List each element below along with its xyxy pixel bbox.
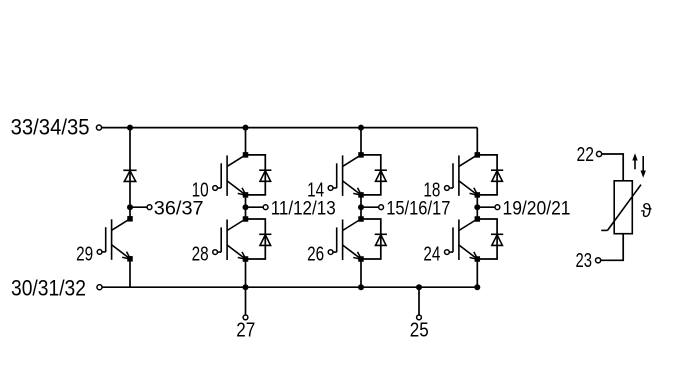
transistor Q3b (leg 3 low-side IGBT) pin 24 xyxy=(445,216,481,262)
wire leg3 bottom column xyxy=(476,259,478,287)
terminal 15/16/17 label xyxy=(386,199,450,220)
wire node to terminal 36/37 xyxy=(130,206,147,208)
terminal 33/34/35 label xyxy=(11,115,90,140)
terminal 25 xyxy=(417,315,422,320)
wire leg2 midpoint branch xyxy=(361,206,379,208)
svg-text:28: 28 xyxy=(192,243,209,265)
node 36/37 junction xyxy=(127,204,133,210)
transistor Q1b (leg 1 low-side IGBT) pin 28 xyxy=(213,216,249,262)
transistor Q7 (brake chopper IGBT) pin 29 xyxy=(97,216,133,261)
terminal 25 label xyxy=(410,320,429,342)
node DC- / terminal 25 junction xyxy=(416,284,422,290)
terminal 19/20/21 xyxy=(495,205,500,210)
transistor Q2t (leg 2 high-side IGBT) pin 14 xyxy=(328,152,364,198)
svg-text:26: 26 xyxy=(307,243,324,265)
svg-text:29: 29 xyxy=(76,243,93,265)
wire leg1 mid column xyxy=(245,195,247,219)
wire leg3 top column xyxy=(476,128,478,155)
terminal 36/37 label xyxy=(154,199,204,220)
svg-text:11/12/13: 11/12/13 xyxy=(271,199,336,220)
wire to terminal 25 xyxy=(418,287,420,315)
wire leg1 midpoint branch xyxy=(246,206,264,208)
wire leg2 top column xyxy=(360,128,362,155)
wire leg3 mid column xyxy=(476,195,478,219)
diode D7 (brake chopper freewheel) xyxy=(123,170,136,181)
node DC- / leg1 junction xyxy=(243,284,249,290)
svg-text:23: 23 xyxy=(576,250,593,272)
wire leg1 bottom column xyxy=(245,259,247,287)
thermistor R-NTC body xyxy=(614,181,632,234)
svg-text:24: 24 xyxy=(423,243,440,265)
svg-text:10: 10 xyxy=(192,179,209,201)
thermistor down arrow xyxy=(641,156,646,178)
wire terminal 22 to thermistor xyxy=(602,154,623,181)
label 10 (leg 1 high-side gate) xyxy=(192,179,209,201)
node DC+ / leg1 junction xyxy=(243,125,249,131)
terminal 23 xyxy=(596,258,601,263)
svg-text:14: 14 xyxy=(307,179,324,201)
transistor Q2b (leg 2 low-side IGBT) pin 26 xyxy=(328,216,364,262)
terminal 33/34/35 (DC+) xyxy=(96,125,101,130)
svg-text:19/20/21: 19/20/21 xyxy=(503,199,571,220)
node leg2 emitter-top xyxy=(358,204,364,210)
node DC+ / chopper diode junction xyxy=(127,125,133,131)
wire DC+ rail xyxy=(102,127,478,129)
node DC- / leg3 junction xyxy=(474,284,480,290)
svg-text:18: 18 xyxy=(423,179,440,201)
label 24 (leg 3 low-side gate) xyxy=(423,243,440,265)
wire leg1 top column xyxy=(245,128,247,155)
terminal 22 label xyxy=(577,144,595,166)
diode D2b (leg 2 low-side freewheel) xyxy=(361,219,387,259)
svg-text:36/37: 36/37 xyxy=(154,199,204,220)
terminal 11/12/13 label xyxy=(271,199,336,220)
terminal 15/16/17 xyxy=(379,205,384,210)
label 28 (leg 1 low-side gate) xyxy=(192,243,209,265)
node DC- / leg2 junction xyxy=(358,284,364,290)
terminal 36/37 xyxy=(147,205,152,210)
svg-text:25: 25 xyxy=(410,320,429,342)
terminal 11/12/13 xyxy=(263,205,268,210)
label 29 (chopper gate) xyxy=(76,243,93,265)
terminal 23 label xyxy=(576,250,593,272)
terminal 27 label xyxy=(236,320,255,342)
transistor Q1t (leg 1 high-side IGBT) pin 10 xyxy=(213,152,249,198)
svg-text:33/34/35: 33/34/35 xyxy=(11,115,90,140)
diode D3t (leg 3 high-side freewheel) xyxy=(477,155,503,195)
terminal 30/31/32 (DC-) xyxy=(97,285,102,290)
wire to terminal 27 xyxy=(245,287,247,315)
svg-text:27: 27 xyxy=(236,320,255,342)
diode D1b (leg 1 low-side freewheel) xyxy=(246,219,272,259)
terminal 30/31/32 label xyxy=(11,275,86,300)
wire DC- rail xyxy=(102,286,480,288)
node leg1 emitter-top xyxy=(243,204,249,210)
label 18 (leg 3 high-side gate) xyxy=(423,179,440,201)
wire leg3 midpoint branch xyxy=(477,206,495,208)
node DC+ / leg2 junction xyxy=(358,125,364,131)
node leg3 emitter-top xyxy=(474,204,480,210)
terminal 19/20/21 label xyxy=(503,199,571,220)
label 26 (leg 2 low-side gate) xyxy=(307,243,324,265)
transistor Q3t (leg 3 high-side IGBT) pin 18 xyxy=(445,152,481,198)
diode D1t (leg 1 high-side freewheel) xyxy=(246,155,272,195)
label 14 (leg 2 high-side gate) xyxy=(307,179,324,201)
terminal 27 xyxy=(243,315,248,320)
wire leg2 bottom column xyxy=(360,259,362,287)
svg-text:15/16/17: 15/16/17 xyxy=(386,199,450,220)
wire thermistor to terminal 23 xyxy=(601,234,624,261)
thermistor diagonal stroke xyxy=(601,185,641,231)
wire leg2 mid column xyxy=(360,195,362,219)
diode D2t (leg 2 high-side freewheel) xyxy=(361,155,387,195)
terminal 22 xyxy=(597,151,602,156)
wire chopper emitter to DC- xyxy=(129,259,131,287)
thermistor temperature symbol xyxy=(641,200,652,222)
svg-text:22: 22 xyxy=(577,144,595,166)
svg-text:ϑ: ϑ xyxy=(641,200,652,222)
svg-text:30/31/32: 30/31/32 xyxy=(11,275,86,300)
wire chopper column upper xyxy=(129,128,131,219)
diode D3b (leg 3 low-side freewheel) xyxy=(477,219,503,259)
thermistor up arrow xyxy=(632,153,637,169)
